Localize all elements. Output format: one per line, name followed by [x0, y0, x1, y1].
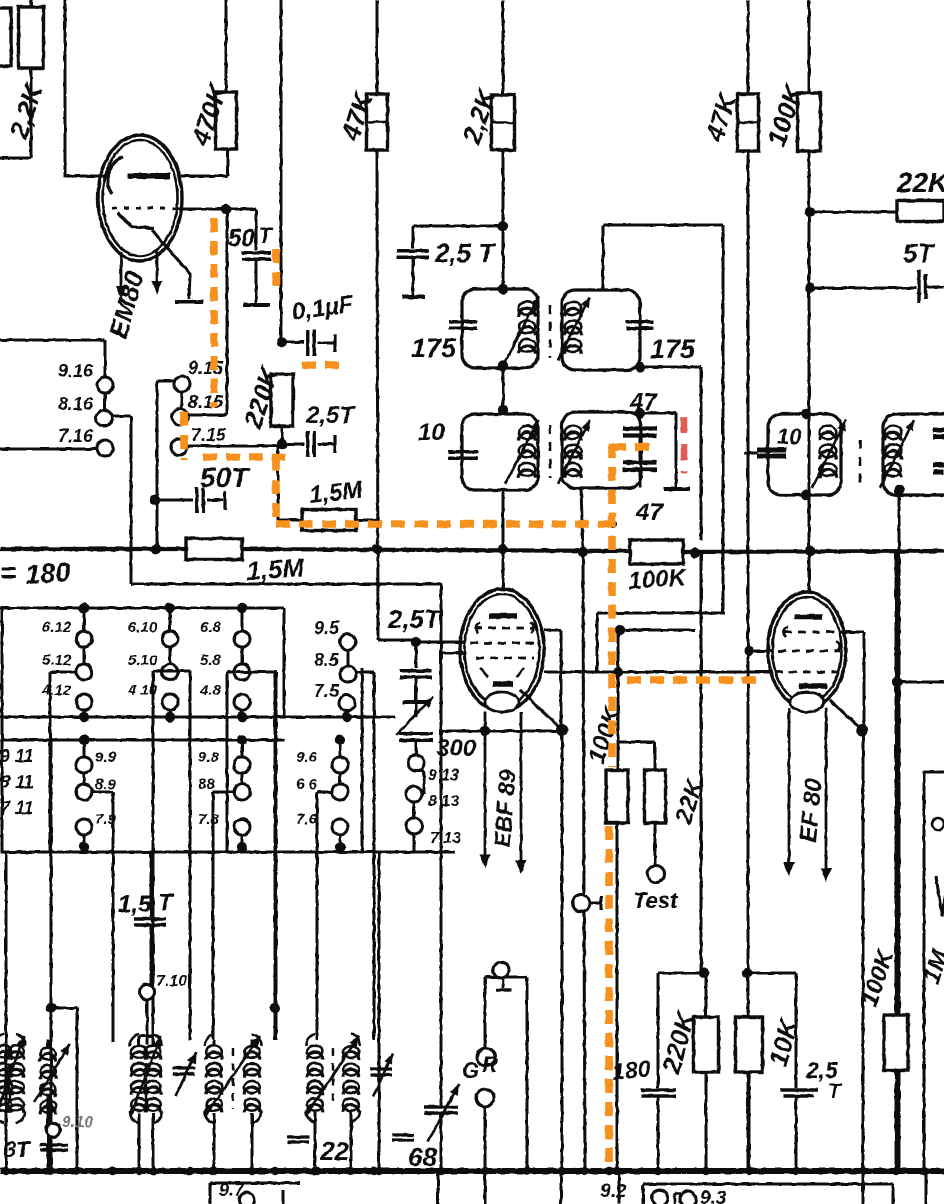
capacitor 47 (top): [623, 429, 657, 436]
resistor 22K: [897, 201, 944, 222]
node: [186, 1167, 194, 1175]
tuning arrow: [880, 420, 914, 488]
wire: [596, 613, 599, 671]
node: [411, 637, 421, 647]
label 7.15: [191, 425, 227, 445]
switch contacts 6.12..: [41, 603, 92, 722]
wire: [214, 1113, 252, 1171]
wire: [561, 730, 564, 1171]
capacitor 2,5T: [397, 251, 429, 258]
svg-text:2,5T: 2,5T: [387, 604, 442, 634]
svg-text:7.15: 7.15: [191, 425, 227, 445]
node: [581, 1167, 589, 1175]
diagonal cathode lead: [520, 690, 562, 730]
svg-text:1,5M: 1,5M: [245, 552, 306, 586]
wire: [181, 392, 182, 410]
svg-text:9.16: 9.16: [58, 361, 94, 381]
label 9.15: [188, 358, 224, 378]
wire: [618, 742, 655, 770]
box: [210, 1183, 300, 1204]
orange dashed path: [272, 249, 280, 294]
ground: [403, 700, 429, 704]
node: [270, 1003, 280, 1013]
node: [578, 547, 588, 557]
rail: [0, 716, 395, 719]
label 175: [650, 334, 696, 364]
svg-text:7.10: 7.10: [156, 973, 187, 990]
wire: [415, 642, 418, 668]
IF transformer T3 box: [768, 414, 841, 495]
node: [437, 1167, 445, 1175]
svg-text:47: 47: [635, 499, 664, 526]
node: [2, 1167, 10, 1175]
wire: [274, 671, 277, 1040]
svg-text:22: 22: [319, 1136, 349, 1166]
capacitor: [287, 1137, 309, 1142]
wire box: [361, 668, 364, 852]
wire: [925, 1171, 928, 1204]
wire: [376, 0, 379, 94]
wire: [5, 852, 8, 1171]
label 9.2: [600, 1181, 627, 1202]
node: [480, 726, 490, 736]
label 0,1µF: [290, 290, 356, 326]
wire: [1, 608, 4, 852]
resistor 2,2K: [492, 95, 515, 150]
node: [523, 1167, 531, 1175]
wire: [700, 553, 703, 973]
svg-text:7 13: 7 13: [430, 830, 461, 847]
capacitor: [392, 1135, 414, 1140]
capacitor 2,5T: [400, 671, 432, 678]
label 2,2K: [456, 83, 502, 148]
wire: [282, 443, 304, 446]
node: [210, 1167, 218, 1175]
svg-text:9.6: 9.6: [296, 749, 318, 766]
label 1,5 T: [118, 889, 175, 918]
svg-text:4.12: 4.12: [41, 682, 72, 699]
label 2,2K: [3, 78, 49, 143]
ground: [664, 487, 690, 491]
wire: [705, 973, 708, 1171]
node: [654, 1167, 662, 1175]
node: [209, 1167, 217, 1175]
wire: [214, 1040, 252, 1046]
label EF 80: [795, 777, 828, 844]
wire box: [227, 672, 276, 1040]
wire: [415, 702, 418, 717]
wire: [281, 426, 284, 446]
wire: [640, 367, 701, 540]
tuning arrow: [558, 420, 590, 484]
svg-text:5.10: 5.10: [128, 652, 158, 669]
tuning arrow: [505, 296, 539, 362]
svg-text:8.16: 8.16: [58, 394, 94, 414]
node: [801, 490, 811, 500]
IF transformer T2 right box: [562, 412, 641, 488]
svg-text:9.9: 9.9: [95, 749, 117, 766]
svg-text:9.3: 9.3: [700, 1188, 727, 1204]
node: [745, 1167, 753, 1175]
switch contacts 9.8..: [198, 735, 250, 852]
node: [699, 968, 709, 978]
svg-text:9.10: 9.10: [62, 1114, 93, 1131]
svg-text:1,5: 1,5: [118, 891, 152, 918]
label 47: [629, 389, 658, 416]
label 2,5T: [387, 604, 442, 634]
wire grid lead: [172, 208, 256, 211]
contact 9.10: [46, 1123, 60, 1137]
label GR: [462, 1052, 498, 1083]
IF transformer T2 left box: [462, 414, 538, 490]
contact 7.15: [171, 439, 187, 455]
contact 9.13: [408, 755, 424, 771]
wire: [654, 823, 657, 866]
trimmer arrow: [396, 697, 433, 735]
wire: [441, 652, 465, 655]
label 180: [611, 1055, 652, 1085]
wire: [157, 381, 174, 548]
contact 9.16: [97, 377, 113, 393]
IF transformer T1 right box: [562, 290, 640, 370]
svg-text:9.8: 9.8: [198, 749, 220, 766]
node: [46, 1003, 56, 1013]
wire: [484, 1171, 487, 1204]
label 7.16: [58, 426, 94, 446]
wire: [484, 1107, 487, 1171]
ground: [402, 295, 425, 299]
node: [498, 405, 508, 415]
node: [894, 485, 904, 495]
wire: [616, 823, 619, 1171]
node: [498, 284, 508, 294]
wire: [255, 259, 258, 303]
svg-text:3T: 3T: [4, 1137, 31, 1162]
capacitor 47 (bottom): [623, 463, 657, 470]
trimmer capacitor: [370, 1053, 393, 1097]
node: [859, 1167, 867, 1175]
node: [792, 1167, 800, 1175]
label 22K: [670, 775, 710, 828]
glyph: [932, 818, 944, 916]
svg-text:6.8: 6.8: [200, 619, 222, 636]
core: [859, 440, 862, 486]
label 100K: [583, 702, 627, 766]
wire: [150, 925, 153, 985]
resistor 100K (AGC): [606, 770, 628, 823]
svg-text:180: 180: [611, 1055, 652, 1085]
tuned coil L5: [306, 1034, 360, 1122]
wire: [440, 731, 443, 1090]
label =180: [0, 557, 71, 590]
node: [135, 1167, 143, 1175]
contact 9.15: [174, 376, 190, 392]
svg-text:T: T: [828, 1080, 843, 1103]
capacitor 175: [449, 322, 477, 329]
svg-text:1,5M: 1,5M: [308, 476, 365, 509]
svg-text:4.8: 4.8: [199, 682, 222, 699]
svg-text:G: G: [462, 1058, 479, 1083]
wire: [808, 0, 811, 93]
svg-text:9 13: 9 13: [428, 767, 459, 784]
contact 9.7: [240, 1193, 255, 1204]
switch contacts 6.10..: [127, 603, 178, 722]
core: [549, 305, 552, 358]
svg-text:T: T: [158, 889, 175, 916]
svg-text:175: 175: [411, 333, 457, 363]
triode/indicator EM80: [98, 135, 182, 261]
node: [370, 1167, 378, 1175]
label 9.3: [700, 1188, 727, 1204]
wire: [50, 740, 53, 1008]
resistor 100K (bus): [630, 540, 683, 564]
wire: [412, 258, 415, 295]
wire: [639, 413, 642, 488]
svg-text:7.8: 7.8: [198, 811, 220, 828]
wire: [0, 448, 97, 451]
wire: [658, 973, 704, 1088]
node: [635, 362, 645, 372]
wire: [92, 792, 113, 1042]
trimmer capacitor: [173, 1052, 196, 1096]
svg-text:8.5: 8.5: [314, 650, 340, 670]
svg-text:8 13: 8 13: [428, 793, 459, 810]
node: [805, 283, 815, 293]
contact Test: [648, 866, 665, 883]
heater arrow: [784, 708, 795, 876]
tuning arrow: [558, 297, 590, 360]
contact 8.16: [96, 410, 112, 426]
wire: [413, 802, 416, 818]
wire: [226, 211, 229, 415]
wire: [485, 977, 527, 1171]
contact 7.16: [97, 440, 113, 456]
rail: [440, 730, 562, 733]
node: [73, 1167, 81, 1175]
ground: [243, 303, 270, 307]
box edge: [924, 772, 944, 1171]
tuned coil L1: [0, 1034, 25, 1123]
label 8 11: [0, 772, 34, 792]
svg-text:9.5: 9.5: [314, 618, 340, 638]
tick: [590, 896, 601, 910]
label 9 11: [0, 746, 34, 766]
node: [277, 439, 287, 449]
svg-text:6 6: 6 6: [296, 776, 318, 793]
contact 7.10: [140, 985, 155, 1000]
wire box: [153, 671, 190, 1040]
wire bus (chassis): [0, 1168, 944, 1174]
svg-text:22K: 22K: [896, 167, 944, 198]
wire: [440, 583, 443, 731]
capacitor 2,5T: [780, 1090, 818, 1096]
wire: [641, 413, 676, 487]
wire: [502, 150, 505, 289]
wire: [810, 211, 897, 214]
wire: [225, 0, 228, 92]
orange dashed path: [627, 676, 764, 684]
wire: [618, 629, 695, 632]
ground stub: [496, 978, 511, 990]
wire: [51, 1008, 77, 1171]
capacitor 50T: [197, 487, 225, 513]
switch contacts 9.6..: [296, 735, 348, 852]
coil: [565, 426, 582, 478]
label 220K: [656, 1007, 702, 1078]
trimmer capacitor 68: [424, 1084, 459, 1142]
node: [248, 1167, 256, 1175]
wire: [188, 414, 227, 417]
IF transformer T4 box: [883, 414, 944, 495]
wire: [104, 393, 107, 410]
svg-text:6.10: 6.10: [128, 619, 158, 636]
svg-text:9 11: 9 11: [0, 746, 34, 766]
svg-text:180: 180: [24, 557, 71, 590]
resistor 100K: [884, 1015, 908, 1070]
svg-text:2,5T: 2,5T: [305, 402, 356, 429]
node: [801, 409, 811, 419]
label Test: [633, 888, 679, 913]
resistor 47K: [367, 94, 388, 150]
wire: [749, 650, 772, 653]
svg-text:9.2: 9.2: [600, 1181, 627, 1202]
node: [892, 1167, 900, 1175]
node: [556, 724, 568, 736]
rail: [0, 851, 455, 854]
rail: [0, 739, 285, 742]
wire: [722, 225, 725, 613]
wire: [0, 68, 31, 158]
wire: [416, 771, 424, 794]
contact 8.13: [406, 786, 422, 802]
svg-text:10: 10: [418, 419, 445, 446]
orange dashed path: [272, 457, 280, 524]
wire: [584, 911, 585, 1171]
tuned coil L4: [205, 1034, 261, 1123]
label 1M: [918, 946, 944, 987]
coil: [519, 426, 536, 478]
svg-text:7.6: 7.6: [296, 811, 318, 828]
node: [347, 1167, 355, 1175]
capacitor 5T: [919, 270, 944, 303]
wire: [413, 834, 416, 852]
wire: [213, 792, 234, 1040]
label 50 T: [228, 223, 273, 252]
wire: [415, 741, 418, 755]
wire: [895, 553, 898, 1171]
switch contacts 9.9..: [76, 735, 117, 852]
svg-text:Test: Test: [633, 888, 679, 913]
label 2,5T: [305, 402, 356, 429]
resistor 47K: [738, 94, 759, 151]
label 47K: [335, 87, 379, 145]
node: [609, 520, 617, 528]
wire: [282, 341, 304, 344]
wire: [502, 490, 505, 590]
wire: [0, 340, 105, 377]
wire: [64, 0, 67, 177]
heater arrow: [821, 708, 832, 882]
wire: [377, 150, 416, 640]
IF transformer T1 left box: [462, 289, 538, 368]
label 300: [436, 735, 477, 762]
wire: [748, 1072, 751, 1171]
wire: [315, 1112, 351, 1171]
capacitor 10: [448, 452, 478, 459]
label 8.15: [188, 392, 224, 412]
wire bus: [544, 671, 770, 674]
pentode EF80: [768, 592, 846, 712]
resistor 1,5M: [302, 510, 356, 531]
capacitor 180: [641, 1090, 676, 1096]
wire: [502, 368, 505, 412]
node: [920, 1167, 928, 1175]
node: [221, 204, 231, 214]
orange dashed path: [210, 218, 218, 407]
node: [558, 1167, 566, 1175]
wire: [618, 1171, 621, 1204]
orange dashed path: [180, 412, 188, 460]
svg-text:100K: 100K: [628, 564, 689, 595]
wire: [146, 1000, 149, 1045]
wire grid: [416, 641, 466, 644]
label 100K: [628, 564, 689, 595]
rail: [131, 583, 441, 586]
coil: [885, 426, 902, 478]
label 2,5 T: [805, 1057, 843, 1103]
wire: [227, 149, 230, 176]
wire: [30, 0, 33, 7]
wire: [898, 490, 901, 1171]
label 9.16: [58, 361, 94, 381]
wire: [413, 226, 503, 248]
node: [277, 337, 287, 347]
heater arrow: [480, 712, 491, 868]
contact: [493, 962, 509, 978]
capacitor 0,1µF: [308, 330, 335, 356]
label 9.13: [428, 767, 459, 784]
wire box: [50, 672, 76, 852]
wire: [187, 445, 282, 448]
wire: [747, 973, 796, 1088]
heater arrow: [516, 712, 527, 874]
wire: [862, 730, 865, 1171]
resistor (left edge, partial): [0, 8, 11, 66]
label 9.10: [62, 1114, 93, 1131]
tuning arrow: [505, 420, 539, 484]
wire: [189, 1039, 192, 1042]
node: [498, 221, 508, 231]
contact GR: [477, 1048, 495, 1066]
tuning arrow: [812, 420, 846, 488]
resistor 22K: [645, 770, 666, 823]
node: [498, 544, 508, 554]
label 7.10: [156, 973, 187, 990]
node: [605, 1167, 613, 1175]
svg-text:=: =: [0, 557, 16, 588]
label 3T: [4, 1137, 31, 1162]
ground: [175, 300, 203, 304]
label 10: [418, 419, 445, 446]
orange dashed path: [605, 826, 613, 1171]
tuned coil L2: [34, 1044, 70, 1114]
capacitor 2,5T: [308, 431, 335, 457]
resistor 220K: [694, 1017, 719, 1072]
tuned coil L3: [130, 1034, 162, 1123]
label 9.7: [219, 1180, 245, 1200]
heater arrow: [152, 250, 163, 295]
wire: [283, 608, 286, 717]
